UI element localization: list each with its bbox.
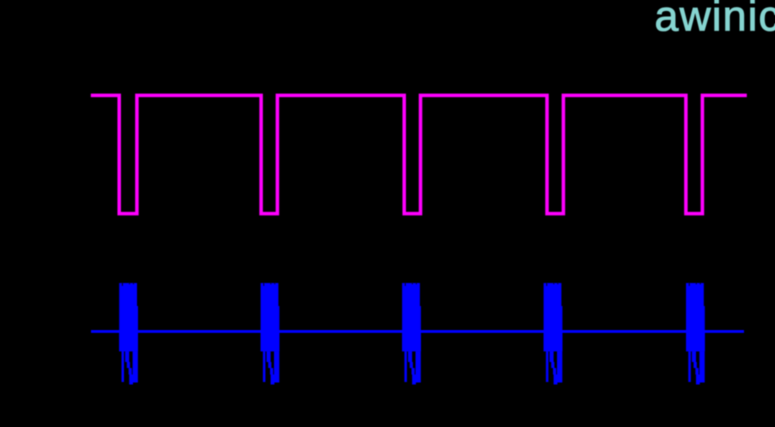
burst 1 bbox=[119, 283, 138, 385]
burst 5 bbox=[686, 283, 705, 385]
PWM trigger waveform (magenta trace) bbox=[91, 95, 747, 213]
svg-text:awinic: awinic bbox=[655, 0, 775, 41]
burst 4 bbox=[544, 283, 563, 385]
drive output bursts (blue) bbox=[119, 283, 705, 385]
burst 2 bbox=[261, 283, 280, 385]
output zero axis (blue baseline) bbox=[91, 330, 744, 333]
burst 3 bbox=[402, 283, 421, 385]
